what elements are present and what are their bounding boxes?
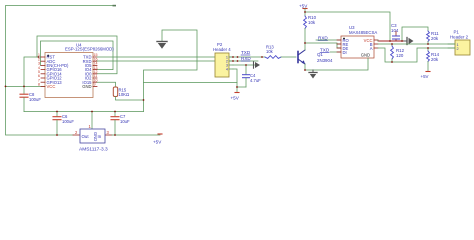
wire RST tie to 3.3V — [24, 57, 41, 86]
ESP left pin numbers — [38, 53, 40, 86]
svg-text:10KΩ: 10KΩ — [119, 92, 130, 97]
svg-text:8: 8 — [38, 83, 40, 87]
svg-text:120: 120 — [396, 53, 404, 58]
svg-text:+5V: +5V — [299, 4, 308, 9]
svg-text:+5V: +5V — [153, 140, 162, 145]
capacitor C4 — [243, 65, 262, 87]
svg-text:20k: 20k — [431, 36, 439, 41]
ground flag top-middle with loop — [144, 30, 238, 112]
svg-text:GND: GND — [93, 132, 98, 141]
ESP right pin numbers — [94, 53, 98, 86]
resistor R12 — [391, 44, 405, 62]
capacitor C3 — [391, 23, 400, 41]
svg-text:Header 4: Header 4 — [213, 47, 231, 52]
node junction dots — [5, 11, 429, 136]
wire RXD long — [97, 60, 233, 62]
svg-text:2: 2 — [457, 47, 459, 51]
wire DI left — [330, 51, 341, 53]
wire loop outer RST to IO0 — [37, 36, 117, 74]
wire TXD long — [97, 56, 233, 58]
wire 5V input run — [112, 134, 160, 136]
power flag +5V bottom — [153, 134, 162, 145]
ESP right pin stubs — [93, 57, 97, 86]
svg-text:GND: GND — [82, 84, 91, 89]
resistor R11 — [427, 31, 440, 44]
net label RXD mid — [241, 56, 251, 61]
svg-text:+5V: +5V — [231, 96, 240, 101]
power flag +5V right — [421, 72, 431, 80]
wire B line to header pin1 — [378, 43, 455, 45]
wire GND rail bottom-left — [24, 111, 144, 113]
ground flag mid — [254, 62, 261, 68]
node open end top wire — [113, 5, 117, 7]
svg-text:10k: 10k — [266, 49, 274, 54]
power flag +5V top — [299, 4, 308, 13]
svg-text:10uF: 10uF — [120, 119, 130, 124]
svg-text:100uF: 100uF — [62, 119, 74, 124]
ground flag emitter rail — [309, 70, 317, 79]
capacitor C6 — [53, 112, 74, 136]
wire MAX485 GND to emitter rail — [305, 58, 368, 70]
ESP pin names right — [82, 55, 92, 89]
wire collector node to RE/DE — [305, 43, 341, 48]
ground flag VCC rail end — [404, 38, 414, 45]
svg-text:10k: 10k — [308, 20, 316, 25]
resistor R15 pulldown — [97, 82, 144, 100]
svg-text:4.7uF: 4.7uF — [250, 78, 261, 83]
svg-text:20k: 20k — [431, 57, 439, 62]
wire VCC rail red — [378, 40, 404, 42]
wire +5V top run to MAX485 — [305, 12, 390, 41]
net label TXD right — [320, 48, 330, 53]
ESP left pin stubs — [41, 57, 45, 86]
net label RXD right — [318, 36, 328, 41]
header P2 — [213, 42, 233, 77]
ESP pin names left — [47, 55, 69, 89]
regulator U1 AMS1117-3.3 — [73, 112, 112, 153]
wire VCC 3.3V to ESP — [6, 85, 46, 87]
svg-text:ESP-12S(ESP8266MOD): ESP-12S(ESP8266MOD) — [65, 47, 114, 52]
resistor R10 — [304, 12, 317, 43]
wire RO left — [316, 39, 341, 41]
svg-text:TXD: TXD — [241, 50, 251, 55]
transistor Q1 2N3904 — [298, 50, 333, 64]
svg-text:Header 2: Header 2 — [450, 35, 469, 40]
ESP module U4 ESP-12S — [45, 43, 114, 98]
svg-text:104: 104 — [391, 28, 399, 33]
resistor R14 — [427, 48, 440, 71]
wire emitter down — [304, 64, 306, 70]
wire GND stub header pin3 — [233, 64, 256, 66]
wire R11 top loop — [402, 27, 428, 41]
svg-text:VCC: VCC — [47, 84, 56, 89]
svg-text:A: A — [370, 46, 373, 51]
power flag +5V mid — [231, 93, 240, 101]
svg-text:DI: DI — [343, 50, 347, 55]
svg-text:AMS1117-3.3: AMS1117-3.3 — [79, 147, 108, 153]
wire collector up — [304, 43, 306, 50]
svg-text:RXD: RXD — [241, 56, 251, 61]
wire A line dip — [378, 48, 455, 62]
svg-text:+5V: +5V — [421, 74, 429, 79]
resistor R13 — [262, 45, 296, 59]
svg-text:MAX485ECSA: MAX485ECSA — [349, 30, 377, 35]
capacitor C7 — [111, 112, 130, 136]
header P1 — [448, 30, 470, 56]
wire loop inner EN to IO4 — [41, 41, 114, 70]
IC U3 MAX485ECSA — [337, 25, 378, 58]
net label TXD mid — [241, 50, 251, 55]
wire 3.3V big L: top run, left drop, bottom run — [6, 6, 116, 136]
svg-text:9: 9 — [94, 83, 96, 87]
wire header pin4 to +5V — [233, 69, 237, 92]
svg-text:Out: Out — [82, 134, 90, 139]
svg-text:TXD: TXD — [320, 48, 330, 53]
svg-text:2N3904: 2N3904 — [317, 58, 333, 63]
svg-text:100uF: 100uF — [29, 97, 41, 102]
svg-text:GND: GND — [361, 53, 370, 58]
svg-text:4: 4 — [226, 68, 228, 72]
capacitor C8 — [20, 86, 41, 111]
